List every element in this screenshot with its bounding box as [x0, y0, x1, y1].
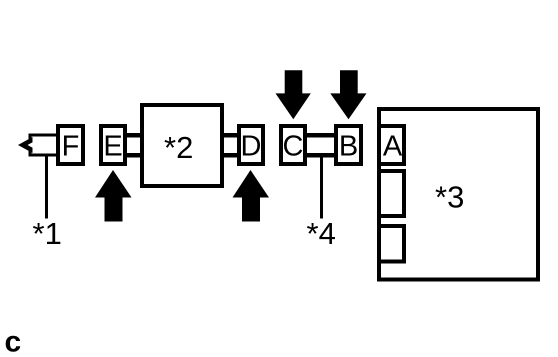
svg-text:*1: *1: [33, 216, 62, 251]
down arrow above B: [330, 70, 366, 119]
svg-text:*2: *2: [164, 130, 193, 165]
box A (inside *3, top): [379, 126, 404, 164]
stubs E to *2: [127, 133, 141, 158]
svg-text:D: D: [241, 131, 262, 163]
svg-text:*4: *4: [307, 216, 336, 251]
svg-text:E: E: [103, 131, 122, 163]
shaft with break arrow (left end): [18, 135, 57, 155]
box E: [101, 126, 125, 164]
box B: [336, 126, 361, 164]
svg-text:c: c: [5, 326, 22, 357]
middle small box inside *3: [379, 171, 404, 216]
svg-text:*3: *3: [435, 180, 464, 215]
down arrow above C: [276, 70, 311, 119]
svg-text:B: B: [339, 131, 358, 163]
leader line *4: [320, 157, 323, 219]
component *3 (large box): [379, 109, 538, 280]
leader line *1: [45, 155, 48, 219]
box C: [281, 126, 305, 164]
svg-text:F: F: [62, 131, 80, 163]
up arrow below D: [233, 170, 270, 222]
bottom small box inside *3: [379, 226, 404, 262]
component *2: [142, 105, 222, 186]
stubs *2 to D: [224, 133, 239, 158]
up arrow below E: [95, 170, 132, 222]
svg-text:C: C: [283, 131, 304, 163]
connector C to B (double bar): [307, 133, 334, 158]
svg-text:A: A: [383, 131, 403, 163]
box F: [58, 126, 83, 164]
box D: [239, 126, 263, 164]
